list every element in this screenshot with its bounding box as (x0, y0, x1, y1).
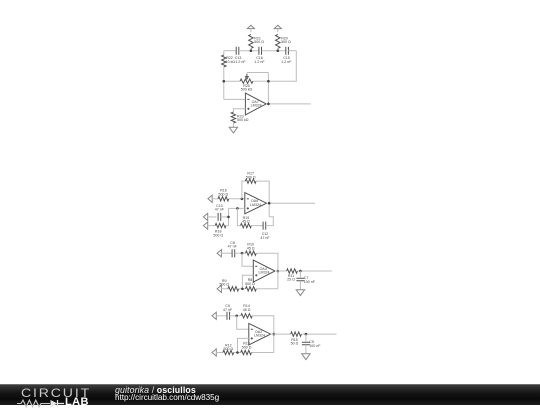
wire output OA4 (275, 270, 287, 272)
svg-text:25 Ω: 25 Ω (287, 278, 295, 282)
svg-text:500 Ω: 500 Ω (219, 283, 229, 287)
svg-text:10 kΩ: 10 kΩ (226, 60, 236, 64)
junction output OA4 (277, 270, 280, 273)
resistor R22 (222, 55, 236, 99)
wire left vertical OA6 (228, 208, 230, 225)
svg-text:500 Ω: 500 Ω (245, 282, 255, 286)
junction output OA2 (273, 333, 276, 336)
capacitor C13 (235, 47, 247, 64)
capacitor C10 (215, 204, 225, 221)
resistor R17 (245, 172, 256, 184)
svg-text:100 nF: 100 nF (309, 344, 321, 348)
svg-text:500 Ω: 500 Ω (213, 233, 223, 237)
net flag input E (217, 285, 228, 292)
svg-text:47 nF: 47 nF (223, 308, 233, 312)
ground stage4 (302, 354, 310, 360)
net flag input B (203, 213, 216, 220)
op-amp OA2 (249, 323, 271, 345)
net flag input D (217, 250, 232, 257)
wire top rail segment 1 (224, 50, 236, 52)
svg-text:500 Ω: 500 Ω (281, 40, 291, 44)
wire inverting input (224, 98, 246, 100)
wire cap to vertical (221, 216, 229, 218)
junction RC stage4 (305, 333, 308, 336)
svg-text:45 Ω: 45 Ω (242, 219, 250, 223)
svg-text:45 Ω: 45 Ω (247, 246, 255, 250)
junction output stage2 (268, 202, 271, 205)
svg-text:1.2 nF: 1.2 nF (235, 60, 246, 64)
wire R19 to C12 (251, 225, 263, 227)
resistor R10 (246, 243, 257, 256)
resistor R20 (276, 34, 292, 50)
wire output stage4 (301, 333, 336, 335)
net flag input C (203, 222, 215, 229)
wire C5 to ground (305, 345, 307, 354)
wire output stage1 (266, 103, 311, 105)
wire non-inverting rail OA6 (229, 207, 245, 209)
svg-text:500 Ω: 500 Ω (223, 347, 233, 351)
resistor R15 (291, 332, 302, 346)
wire C9 to R14 (230, 315, 241, 317)
wire C8 to R10 (235, 252, 246, 254)
resistor R8 (245, 278, 256, 291)
resistor R21 (249, 34, 265, 50)
net flag input A (208, 195, 218, 202)
svg-text:1.2 nF: 1.2 nF (254, 60, 265, 64)
junction cap-vertical (227, 216, 230, 219)
wire to C5 (305, 334, 307, 341)
op-amp OA6 (245, 193, 267, 214)
resistor R9 (219, 279, 238, 291)
capacitor C15 (281, 47, 292, 64)
capacitor C7 (296, 276, 315, 284)
capacitor C9 (223, 304, 233, 320)
capacitor C12 (260, 222, 270, 240)
wire top to right vertical OA4 (256, 253, 278, 289)
wire output stage2 (267, 202, 315, 204)
wire C12 up to output (266, 203, 274, 225)
svg-text:47 nF: 47 nF (260, 236, 270, 240)
capacitor C5 (302, 340, 321, 348)
wire top rail segment 3 (262, 50, 286, 52)
svg-text:LM324: LM324 (250, 203, 261, 207)
resistor R19 (241, 216, 252, 228)
svg-text:45 Ω: 45 Ω (243, 308, 251, 312)
wire plus branch OA2 (238, 338, 249, 352)
wire left drop (223, 51, 225, 55)
junction plus-R19 OA6 (236, 207, 239, 210)
wire top to right vertical OA2 (252, 316, 273, 353)
wire minus branch OA2 (237, 316, 249, 330)
svg-text:500 kΩ: 500 kΩ (241, 88, 253, 92)
resistor R14 (241, 304, 253, 318)
svg-text:500 Ω: 500 Ω (242, 345, 252, 349)
svg-text:500 Ω: 500 Ω (219, 192, 229, 196)
wire right drop (268, 51, 296, 81)
wire R13 to right vertical (252, 352, 274, 354)
wire R8 to right vertical (256, 288, 278, 290)
svg-text:500 Ω: 500 Ω (246, 175, 256, 179)
junction rail-R21 (250, 49, 253, 52)
wire feedback left OA6 (242, 181, 245, 199)
junction C8-R10 (241, 252, 244, 255)
wire feedback right OA6 (256, 181, 269, 203)
ground stage3 (296, 290, 304, 296)
svg-text:500 kΩ: 500 kΩ (237, 118, 249, 122)
net flag input F (212, 312, 227, 319)
svg-text:LM324: LM324 (251, 104, 262, 108)
wire minus branch OA4 (242, 253, 253, 266)
net flag V+ (left) (247, 25, 254, 32)
svg-text:1.2 nF: 1.2 nF (281, 60, 292, 64)
junction bottom OA2 (236, 351, 239, 354)
svg-text:100 nF: 100 nF (304, 280, 316, 284)
svg-text:47 nF: 47 nF (228, 245, 238, 249)
ground stage1 (229, 127, 237, 133)
resistor R23 (231, 112, 249, 127)
wire top rail segment 4 (288, 50, 296, 52)
svg-text:50 Ω: 50 Ω (291, 342, 299, 346)
wire to inverting input OA6 (229, 198, 245, 200)
junction pot-right (267, 80, 270, 83)
potentiometer R25 (240, 74, 253, 92)
junction rail-R20 (277, 49, 280, 52)
resistor R11 (287, 269, 298, 282)
capacitor C16 (254, 47, 265, 64)
junction fb-left OA6 (241, 198, 244, 201)
wire to C7 (299, 271, 301, 277)
svg-text:500 Ω: 500 Ω (254, 40, 264, 44)
wire top rail segment 2 (239, 50, 259, 52)
wire R9 to R8 (239, 288, 246, 290)
svg-text:47 nF: 47 nF (215, 208, 225, 212)
net flag input G (212, 349, 223, 356)
svg-text:LM324: LM324 (254, 334, 265, 338)
wire output stage3 (297, 270, 332, 272)
op-amp OA4 (253, 260, 275, 282)
resistor R13 (241, 342, 252, 355)
wire plus branch OA4 (242, 275, 253, 289)
wire pot wiper box (247, 73, 269, 104)
junction C9-R14 (235, 315, 238, 318)
junction pot-left (223, 80, 226, 83)
wire R19 branch down (237, 208, 240, 225)
wire R12 to R13 (234, 352, 241, 354)
resistor R16 (218, 189, 229, 201)
wire output OA2 (271, 333, 291, 335)
resistor R18 (213, 223, 228, 237)
net flag V+ (right) (274, 25, 281, 32)
junction output stage1 (267, 103, 270, 106)
wire non-inverting lead (233, 109, 245, 112)
resistor R12 (223, 343, 234, 354)
capacitor C8 (228, 241, 238, 257)
junction bottom OA4 (241, 288, 244, 291)
junction RC stage3 (299, 270, 302, 273)
wire C7 to ground (299, 281, 301, 290)
op-amp OA7 (245, 93, 266, 115)
wire pot rail (224, 80, 269, 82)
svg-text:LM324: LM324 (259, 271, 270, 275)
